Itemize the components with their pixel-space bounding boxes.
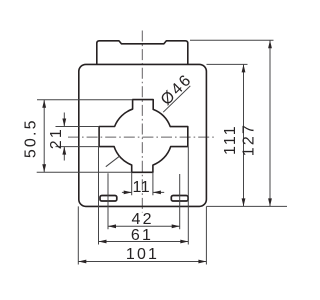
svg-text:21: 21: [48, 127, 65, 149]
svg-text:50.5: 50.5: [23, 118, 40, 158]
arrow 101 right: [198, 260, 206, 264]
dim 127 extension top: [190, 39, 274, 41]
dim 111 line: [243, 64, 245, 206]
arrow 42 right: [172, 224, 180, 228]
svg-text:101: 101: [126, 246, 159, 263]
arrow 42 left: [108, 224, 116, 228]
leader line for diameter 46: [163, 86, 190, 112]
dim 21 arrow shafts: [63, 113, 65, 161]
dim 61 line: [99, 241, 189, 243]
mounting slot left: [100, 196, 117, 202]
arrow 50.5 down: [42, 164, 46, 172]
centerline vertical: [141, 31, 143, 213]
dim 42 line: [108, 225, 180, 227]
arrow 127 up: [268, 40, 272, 48]
dim 111 extension top: [207, 63, 248, 65]
mounting slot right: [171, 196, 188, 202]
dim 50.5 line: [43, 100, 45, 173]
dim 21 extension bottom: [56, 146, 100, 148]
arrow 11 left: [153, 191, 161, 195]
dim 42 extensions: [108, 173, 180, 229]
shared extension bottom right: [207, 205, 288, 207]
svg-text:61: 61: [131, 227, 153, 244]
arrow 21 up: [62, 147, 66, 155]
dim 21 extension top: [56, 126, 100, 128]
pointer line to hole arc: [106, 156, 120, 167]
centerline horizontal: [68, 136, 216, 138]
svg-text:42: 42: [131, 211, 153, 228]
arrow 11 right: [124, 191, 132, 195]
dim 101 extensions: [78, 206, 206, 264]
terminal cover: [97, 41, 188, 65]
arrow 21 down: [62, 119, 66, 127]
svg-text:111: 111: [222, 124, 239, 155]
center hole: [99, 100, 188, 173]
arrowheads: [42, 40, 272, 263]
dim 61 extensions: [99, 147, 189, 245]
arrow 50.5 up: [42, 100, 46, 108]
arrow 111 down: [242, 198, 246, 206]
dim 50.5 extension bottom: [37, 171, 132, 173]
dim 11 extensions: [132, 172, 153, 195]
svg-text:127: 127: [241, 123, 258, 156]
body outline: [79, 64, 207, 206]
arrow 101 left: [78, 260, 86, 264]
svg-text:11: 11: [132, 179, 150, 196]
dim 127 line: [269, 40, 271, 206]
dim 101 line: [78, 261, 206, 263]
arrow 61 right: [180, 240, 188, 244]
dim 50.5 extension top: [37, 99, 133, 101]
dim 11 outside segments: [122, 191, 164, 193]
arrow 127 down: [268, 198, 272, 206]
arrow 111 up: [242, 64, 246, 72]
arrow 61 left: [99, 240, 107, 244]
